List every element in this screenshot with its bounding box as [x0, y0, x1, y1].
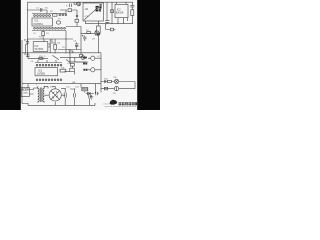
capacitor C2 top mid	[70, 4, 72, 8]
capacitor C5 electrolytic	[83, 36, 86, 42]
svg-text:AC220: AC220	[22, 89, 30, 92]
IC1 bottom rail	[32, 30, 66, 32]
wire bridge leads	[44, 86, 65, 105]
phono pickup box	[83, 3, 104, 21]
svg-text:50Hz: 50Hz	[23, 93, 28, 95]
watermark glyphs	[119, 102, 137, 105]
capacitor C6 left	[26, 39, 29, 45]
wire vertical x50	[49, 39, 51, 53]
svg-text:BA328: BA328	[116, 12, 124, 15]
svg-text:YD: YD	[113, 93, 116, 95]
transformer T1 core	[40, 88, 42, 103]
IC3 body	[35, 68, 58, 76]
wire y57.4 right	[60, 57, 82, 62]
IC4 top stub	[43, 39, 45, 42]
watermark left faint text	[104, 103, 110, 105]
diode under cylinder	[96, 34, 100, 36]
transistor Q4	[81, 56, 85, 60]
wire stub label box	[81, 84, 85, 93]
resistor box B right of IC3	[70, 68, 75, 71]
IC3 top stubs	[38, 60, 56, 63]
pin circles right of R2	[59, 14, 61, 16]
resistor R12	[111, 10, 114, 13]
small box row2	[104, 87, 107, 90]
wire y23.7	[86, 23, 134, 25]
wire vertical x95.3	[94, 84, 96, 94]
left black scan bar	[0, 0, 21, 110]
wire second top line	[27, 10, 47, 14]
svg-text:GB: GB	[72, 82, 76, 84]
watermark microtext row	[105, 106, 137, 108]
wire row1 right	[101, 81, 135, 83]
capacitor C1	[40, 8, 42, 12]
capacitor C4 right	[130, 2, 134, 7]
svg-text:XD: XD	[113, 77, 116, 79]
capacitor row1	[104, 80, 106, 83]
wire y58.4	[28, 57, 48, 59]
svg-text:LM386: LM386	[37, 72, 45, 76]
capacitor C10	[89, 95, 91, 106]
lamp top	[74, 2, 77, 4]
resistor R11	[108, 80, 112, 82]
wire left border vertical	[22, 40, 28, 104]
transformer T1 secondary	[43, 86, 44, 102]
capacitor C3	[105, 21, 109, 24]
transistor Q1	[56, 21, 60, 24]
wire top-left vertical	[26, 2, 28, 57]
wire mains	[28, 84, 34, 94]
capacitor pair B	[75, 47, 78, 50]
ground	[90, 95, 93, 99]
capacitor C9	[96, 92, 99, 95]
diode D2	[86, 92, 94, 95]
wire y39	[27, 39, 73, 44]
svg-text:1M: 1M	[85, 8, 88, 11]
jack J2	[91, 68, 95, 72]
wire r6	[54, 39, 56, 53]
capacitor pair A	[75, 43, 78, 47]
jack J1	[91, 56, 95, 60]
capacitor C8	[70, 89, 76, 105]
IC4 box	[33, 42, 48, 52]
wire stub	[72, 10, 78, 15]
box under x81	[80, 54, 83, 57]
wire vertical x25.5	[26, 45, 28, 53]
bottom rail y105.4	[28, 103, 95, 105]
box small top mid	[68, 9, 72, 12]
lamp XD	[114, 79, 118, 83]
pin circle x77	[76, 15, 78, 17]
right black scan bar	[137, 0, 160, 110]
wire mid rail y53.5	[22, 52, 101, 54]
wire diagonal	[52, 55, 59, 59]
wire transformer leads	[34, 86, 49, 88]
wire r5	[131, 7, 133, 24]
watermark logo blob	[110, 100, 118, 105]
resistor R2	[53, 14, 58, 16]
resistor box A right of IC3	[70, 63, 74, 66]
IC3 top rail	[35, 62, 62, 64]
wire vertical x101	[100, 53, 102, 93]
wire zig	[66, 60, 86, 63]
resistor R9	[39, 58, 43, 60]
IC1 top pins	[34, 15, 36, 17]
dark head label	[96, 6, 102, 11]
electrolytic cap cylinder	[96, 26, 100, 33]
IC1 body	[32, 18, 53, 26]
wire pickup stubs	[86, 21, 99, 26]
resistor R6a vertical	[42, 32, 45, 36]
svg-text:10k: 10k	[57, 42, 60, 44]
wire long vertical x81	[66, 27, 81, 55]
transformer T1 primary	[38, 86, 39, 102]
IC2 body	[115, 4, 128, 17]
wire top rail	[27, 1, 133, 3]
wire row2	[101, 88, 135, 90]
label box power	[82, 88, 88, 91]
bottom long rail y83.7	[22, 83, 101, 85]
wire y62 stub	[69, 53, 71, 62]
IC4 right stubs	[48, 44, 50, 47]
wire y10 right	[60, 10, 67, 14]
resistor R7 above rail	[69, 51, 73, 53]
wire y49.5	[58, 49, 81, 51]
IC3 bottom pins	[36, 79, 38, 81]
wire vertical x98	[97, 36, 99, 53]
transistor Q2	[95, 31, 99, 35]
plus mark c11	[24, 53, 25, 54]
IC1 bottom pins	[34, 27, 36, 29]
wire vertical x66	[65, 31, 67, 53]
speaker circle	[114, 86, 118, 90]
svg-text:TA7368: TA7368	[34, 48, 43, 51]
plus mark	[82, 35, 83, 36]
mains input block	[21, 88, 30, 97]
wire IC1 pin rail	[32, 13, 66, 15]
IC3 top pins	[36, 64, 38, 66]
IC2 stubs	[117, 2, 128, 24]
wire vertical x112	[111, 2, 113, 24]
wire y62 to jacks	[65, 58, 89, 75]
wire vertical x107	[106, 2, 108, 20]
resistor R5	[131, 10, 134, 16]
svg-text:KD9561: KD9561	[34, 22, 44, 26]
capacitor C7 electrolytic	[61, 89, 66, 106]
resistor R6 vertical	[54, 44, 57, 49]
svg-text:B500: B500	[82, 89, 88, 91]
bridge rectifier	[49, 89, 61, 101]
capacitor C11 electrolytic	[26, 53, 29, 59]
wire y33.5	[81, 33, 95, 35]
resistor R10	[60, 69, 66, 72]
resistor small right of cylinder	[110, 28, 113, 31]
box under pin x77	[75, 19, 79, 22]
wire right vertical x135	[134, 82, 136, 89]
resistor R13	[87, 32, 91, 34]
plus mark c6	[24, 39, 25, 40]
